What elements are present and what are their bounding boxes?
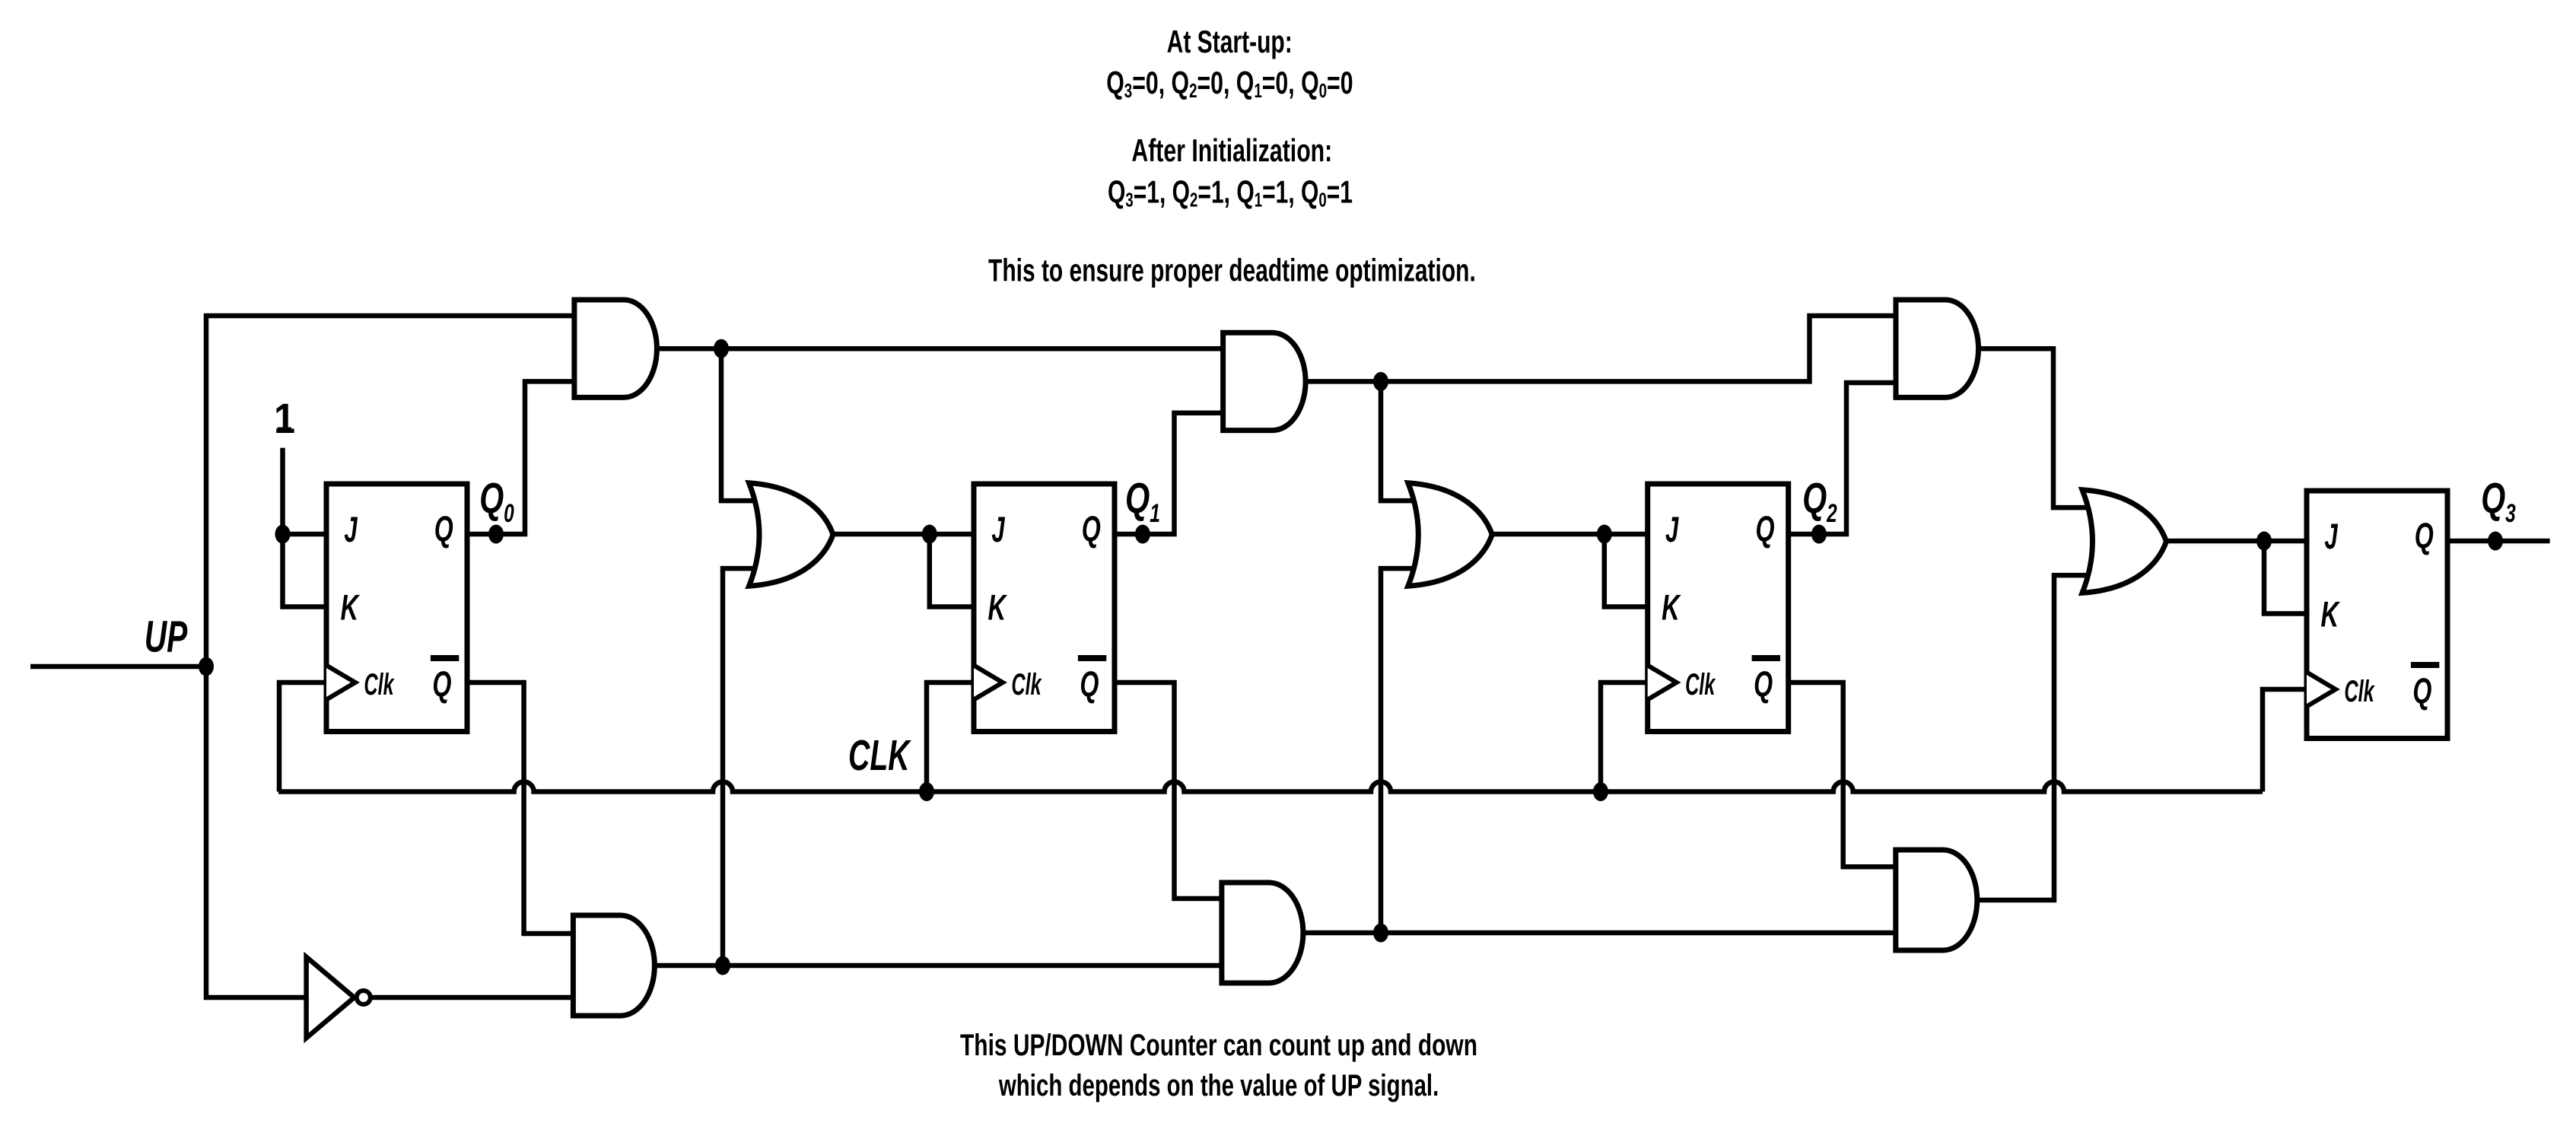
AND gate A1: [574, 300, 657, 397]
NOT gate (inverter) on UP line: [307, 957, 355, 1039]
wire OR O2 output to FF2 J: [1490, 532, 1648, 537]
wire Q1bar down to AND B2 upper input: [1115, 682, 1222, 899]
FF1 Qbar overbar: [1078, 655, 1106, 661]
FF0 Qbar overbar: [431, 655, 459, 661]
svg-text:Q: Q: [1080, 664, 1099, 705]
label Q1: [1125, 474, 1160, 528]
wire AND A3 output down to OR O3 upper input: [1977, 348, 2094, 507]
wire FF1 Clk to CLK rail: [927, 682, 974, 792]
wire AND B1 output to AND B2 lower input: [653, 963, 1222, 969]
svg-text:Q: Q: [1082, 509, 1101, 549]
node Q2: [1811, 525, 1827, 544]
svg-text:At Start-up:: At Start-up:: [1167, 24, 1293, 59]
JK flip-flop FF2: [1648, 484, 1789, 732]
FF1 label K: [987, 587, 1007, 628]
svg-text:K: K: [1662, 587, 1681, 628]
svg-text:This UP/DOWN Counter can count: This UP/DOWN Counter can count up and do…: [960, 1029, 1477, 1062]
wire UP input: [30, 664, 206, 670]
JK flip-flop FF1: [974, 484, 1115, 732]
wire Q0 to AND A1 lower input: [467, 381, 574, 534]
wire CLK rail with wire hops: [278, 782, 2263, 792]
wire J input FF0: [283, 532, 327, 537]
text At Start-up: [1167, 24, 1293, 59]
node J1 junction: [922, 525, 937, 544]
wire branch up to OR O1 lower input: [723, 568, 760, 966]
wire branch down to OR O1 upper input: [721, 348, 760, 501]
label constant 1: [274, 396, 295, 443]
svg-text:Q: Q: [1754, 664, 1773, 705]
FF0 label K: [340, 587, 360, 628]
wire constant 1 to J and K of FF0: [283, 448, 327, 607]
OR gate O1: [749, 483, 834, 587]
svg-text:1: 1: [274, 396, 295, 443]
FF3 label Q: [2415, 516, 2434, 556]
wire OR O3 output to FF3 J: [2165, 539, 2307, 544]
wire AND B2 output to AND B3 lower input: [1301, 931, 1896, 936]
svg-text:Q: Q: [1755, 509, 1774, 549]
svg-text:which depends on the value of: which depends on the value of UP signal.: [998, 1069, 1439, 1102]
JK flip-flop FF0: [326, 484, 467, 732]
label Q0: [479, 473, 514, 528]
svg-text:This to ensure proper deadtime: This to ensure proper deadtime optimizat…: [988, 252, 1476, 288]
wire AND A2 output to AND A3 upper input: [1304, 316, 1896, 381]
FF2 label Qbar: [1754, 664, 1773, 705]
OR gate O3: [2082, 490, 2167, 593]
wire Q3 output: [2448, 539, 2550, 544]
svg-text:Q: Q: [2415, 516, 2434, 556]
wire OR O1 output to FF1 J: [832, 532, 974, 537]
FF0 label J: [344, 511, 358, 550]
text counter note line 1: [960, 1029, 1477, 1062]
node J0 junction: [275, 525, 291, 544]
FF2 clock edge triangle: [1648, 666, 1677, 700]
wire inverter output to AND B1 lower input: [372, 995, 573, 1001]
FF2 label Q: [1755, 509, 1774, 549]
svg-text:Q3​=1, Q2​=1, Q1​=1, Q0​=1: Q3​=1, Q2​=1, Q1​=1, Q0​=1: [1108, 174, 1353, 212]
wire FF0 Clk to CLK rail: [279, 682, 326, 792]
svg-text:K: K: [340, 587, 360, 628]
svg-text:After Initialization:: After Initialization:: [1131, 132, 1332, 168]
node UP junction: [199, 657, 214, 676]
svg-text:J: J: [991, 511, 1005, 550]
node J2 junction: [1597, 525, 1612, 544]
label CLK: [848, 732, 912, 780]
FF0 label Q: [434, 509, 453, 549]
text counter note line 2: [998, 1069, 1439, 1102]
wire Q0bar down to AND B1 upper input: [467, 682, 574, 934]
node B2 output junction: [1373, 924, 1388, 943]
svg-text:K: K: [987, 587, 1007, 628]
node CLK rail junction to FF2: [1593, 782, 1608, 801]
svg-text:Q: Q: [2412, 671, 2431, 711]
text After Initialization: [1131, 132, 1332, 168]
svg-text:J: J: [2324, 517, 2338, 557]
svg-text:Q3​=0, Q2​=0, Q1​=0, Q0​=0: Q3​=0, Q2​=0, Q1​=0, Q0​=0: [1106, 65, 1353, 102]
text initialized values: [1108, 174, 1353, 212]
AND gate B3: [1896, 850, 1977, 950]
wire branch up to OR O2 lower input: [1381, 568, 1419, 933]
label Q2: [1802, 473, 1837, 528]
node CLK rail junction to FF1: [919, 782, 934, 801]
NOT gate bubble: [357, 991, 370, 1004]
svg-text:Clk: Clk: [2344, 675, 2374, 708]
text startup values: [1106, 65, 1353, 102]
node Q0: [488, 525, 504, 544]
wire UP trunk from AND A1 input down to inverter input: [206, 316, 574, 997]
label UP: [145, 612, 188, 662]
AND gate B1: [573, 915, 654, 1016]
wire Q2 to AND A3 lower input: [1789, 383, 1896, 534]
svg-text:Clk: Clk: [1685, 668, 1716, 701]
text deadtime note: [988, 252, 1476, 288]
FF3 label K: [2320, 594, 2340, 635]
svg-text:Q: Q: [434, 509, 453, 549]
FF2 Qbar overbar: [1752, 655, 1780, 661]
OR gate O2: [1408, 483, 1493, 587]
node Q1: [1135, 525, 1150, 544]
node J3 junction: [2256, 532, 2272, 551]
wire AND B3 output up to OR O3 lower input: [1976, 575, 2094, 900]
svg-text:J: J: [1665, 511, 1679, 550]
FF3 label J: [2324, 517, 2338, 557]
node A2 output junction: [1373, 372, 1388, 391]
FF2 label K: [1662, 587, 1681, 628]
FF1 label Q: [1082, 509, 1101, 549]
FF2 label Clk: [1685, 668, 1716, 701]
FF1 label Qbar: [1080, 664, 1099, 705]
wire branch down to OR O2 upper input: [1381, 381, 1419, 501]
svg-text:Clk: Clk: [364, 668, 394, 701]
svg-text:Q: Q: [432, 664, 451, 705]
label Q3: [2481, 473, 2516, 528]
FF3 clock edge triangle: [2307, 673, 2336, 707]
wire J3 branch to K3: [2264, 541, 2307, 614]
FF1 label J: [991, 511, 1005, 550]
FF0 label Clk: [364, 668, 394, 701]
label constant 1 base serif: [278, 428, 291, 434]
FF0 label Qbar: [432, 664, 451, 705]
svg-text:CLK: CLK: [848, 732, 912, 780]
svg-text:K: K: [2320, 594, 2340, 635]
wire J1 branch to K1: [930, 534, 974, 607]
wire Q2bar down to AND B3 upper input: [1789, 682, 1896, 867]
AND gate B2: [1222, 883, 1303, 983]
FF3 Qbar overbar: [2411, 662, 2439, 668]
FF3 label Qbar: [2412, 671, 2431, 711]
wire FF2 Clk to CLK rail: [1601, 682, 1648, 792]
FF3 label Clk: [2344, 675, 2374, 708]
wire J2 branch to K2: [1604, 534, 1648, 607]
FF2 label J: [1665, 511, 1679, 550]
node A1 output junction: [714, 339, 729, 358]
FF1 label Clk: [1011, 668, 1042, 701]
FF1 clock edge triangle: [974, 666, 1003, 700]
wire Q1 to AND A2 lower input: [1115, 413, 1223, 534]
AND gate A2: [1223, 332, 1305, 430]
wire FF3 Clk to CLK rail end: [2263, 689, 2307, 792]
svg-text:Clk: Clk: [1011, 668, 1042, 701]
node Q3: [2488, 532, 2503, 551]
FF0 clock edge triangle: [326, 666, 355, 700]
wire AND A1 output to AND A2 upper input: [655, 346, 1223, 352]
svg-text:J: J: [344, 511, 358, 550]
svg-text:UP: UP: [145, 612, 188, 662]
node B1 output junction: [715, 956, 730, 975]
JK flip-flop FF3: [2307, 491, 2447, 739]
AND gate A3: [1896, 300, 1979, 397]
